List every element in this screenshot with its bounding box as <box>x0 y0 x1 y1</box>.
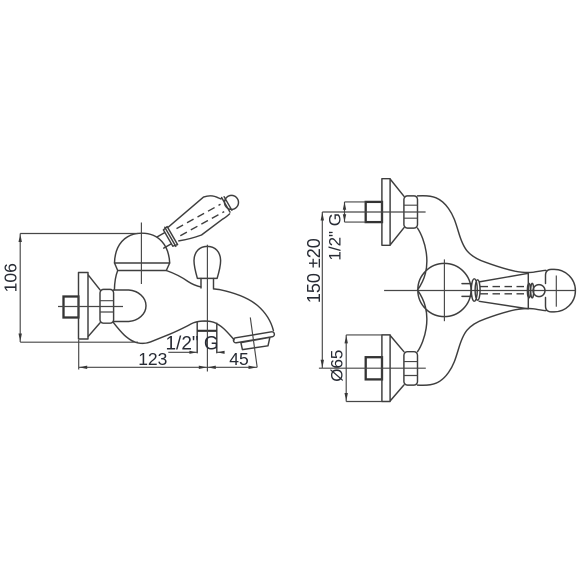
dim Ø65 arrows (right view) <box>345 335 348 402</box>
top connection centerline (right view) <box>322 211 425 213</box>
lever dashed glaze lines (left view) <box>177 204 225 235</box>
lever collar (left view) <box>163 227 177 247</box>
dim Ø65 extension lines (right view) <box>346 335 382 402</box>
svg-text:1/2" G: 1/2" G <box>326 213 345 261</box>
body outer outline bottom (right view) <box>418 309 546 386</box>
hose fitting 1/2G (left view) <box>197 323 217 353</box>
dim 1/2G line segments (left view) <box>168 351 224 353</box>
body bottom curve and spout underside (left view) <box>114 321 235 343</box>
bottom pipe stub (right view) <box>366 357 382 379</box>
dim 1/2G line (right view) <box>344 202 346 222</box>
body left edge (left view) <box>114 271 117 291</box>
svg-text:123: 123 <box>138 349 167 369</box>
handle neck circle (right view) <box>533 285 545 297</box>
dim 150±20 line <box>321 212 323 368</box>
lever stem (left view) <box>157 233 171 249</box>
aerator axis line (left view) <box>250 317 257 367</box>
diverter stem (left view) <box>201 278 214 288</box>
dim 123 line <box>79 366 208 368</box>
dim 150±20 arrows <box>321 212 324 368</box>
hex nut (left view) <box>100 289 114 323</box>
spout aerator frustum (left view) <box>241 337 270 349</box>
dim 106 line <box>19 234 21 343</box>
body dome cap (left view) <box>115 233 170 263</box>
lever body (left view) <box>169 196 230 241</box>
dim 123 extension line at wall <box>78 340 80 370</box>
svg-text:Ø65: Ø65 <box>327 350 346 382</box>
main horizontal centerline (right view) <box>384 290 575 292</box>
dim arrows bottom <box>79 366 257 369</box>
dim 1/2G arrows (right view) <box>343 202 346 222</box>
diverter centerline (left view) <box>206 245 208 372</box>
wall pipe stub (left view) <box>64 297 79 318</box>
handle stem (right view) <box>462 284 472 297</box>
dome skirt band (left view) <box>115 263 170 271</box>
dim 45 line <box>207 366 257 368</box>
svg-text:1/2" G: 1/2" G <box>165 334 218 355</box>
escutcheon cone (left view) <box>88 275 100 337</box>
lever neck rings (left view) <box>222 197 232 212</box>
bottom escutcheon plate (right view) <box>382 335 390 402</box>
dim 106 bottom extension line <box>20 341 138 343</box>
ball vertical tick (right view) <box>555 276 557 307</box>
dim 106 arrows <box>19 234 22 343</box>
circle vertical centerline (right view) <box>443 259 445 321</box>
body right edge to diverter (left view) <box>166 271 201 287</box>
dome vertical centerline (left view) <box>140 223 142 285</box>
diverter knob (left view) <box>194 246 221 278</box>
lever ball knob (left view) <box>225 195 239 209</box>
bottom hex nut (right view) <box>404 352 418 385</box>
top pipe stub (right view) <box>366 202 382 222</box>
cartridge housing U-shape (left view) <box>114 290 147 322</box>
bottom connection centerline (right view) <box>319 367 426 369</box>
body outer outline top (right view) <box>418 196 546 273</box>
dim 1/2G arrows (left view) <box>189 351 224 354</box>
inlet centerline (left view) <box>58 306 123 308</box>
body waist S-curve (right view) <box>418 228 427 352</box>
dim 1/2G extension lines (right view) <box>345 202 366 222</box>
svg-text:45: 45 <box>229 349 248 369</box>
top escutcheon cone (right view) <box>390 179 404 245</box>
escutcheon plate (left view) <box>79 273 89 340</box>
svg-text:150 ±20: 150 ±20 <box>304 238 324 303</box>
handle ball (right view) <box>546 269 576 312</box>
top hex nut (right view) <box>404 196 418 228</box>
handle cone (right view) <box>479 273 528 309</box>
cartridge circle (right view) <box>418 263 471 316</box>
body edge diverter to spout top curve (left view) <box>214 289 274 331</box>
handle end ring (right view) <box>527 283 530 298</box>
bottom escutcheon cone (right view) <box>390 335 404 401</box>
handle collar ellipses (right view) <box>471 279 477 301</box>
svg-text:106: 106 <box>1 263 21 292</box>
dim 106 top extension line <box>20 233 138 235</box>
spout aerator band (left view) <box>233 331 275 343</box>
handle dashed lines (right view) <box>481 287 527 294</box>
top escutcheon plate (right view) <box>382 179 390 246</box>
dim Ø65 line (right view) <box>345 335 347 402</box>
